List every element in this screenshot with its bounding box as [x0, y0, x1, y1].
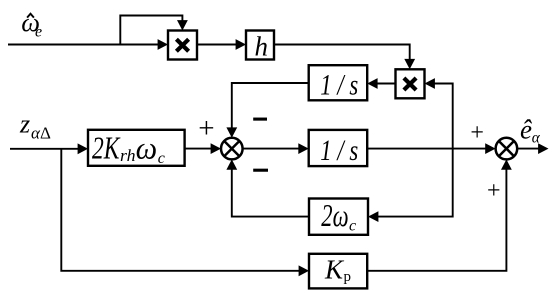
- svg-text:1 / s: 1 / s: [320, 70, 358, 102]
- gain block 2wc: [309, 198, 368, 235]
- label e-hat_alpha (output signal name): [520, 115, 540, 147]
- wire: 1/s (top) output down into summing junction S1 top: [226, 83, 308, 138]
- gain block Kp: [309, 254, 367, 289]
- summing junction S1 (circle with X): [221, 138, 243, 160]
- svg-text:+: +: [470, 120, 484, 146]
- wire: Kp output up into output summing junction S2 bottom: [367, 159, 512, 270]
- svg-text:ê: ê: [520, 115, 532, 145]
- minus sign (top input of summing junction S1): [253, 118, 267, 121]
- svg-text:α: α: [532, 129, 541, 146]
- integrator block 1/s (top): [309, 65, 368, 101]
- svg-text:h: h: [255, 31, 269, 61]
- wire: z branch down into gain block Kp (node at x=61.3): [61, 149, 309, 276]
- svg-text:+: +: [487, 178, 501, 204]
- svg-text:c: c: [349, 217, 356, 234]
- output summing junction S2 (circle with X): [496, 138, 518, 160]
- wire: output arrow e-hat_alpha: [517, 143, 548, 154]
- svg-text:ω: ω: [136, 129, 158, 165]
- wire: 1/s (middle) output to output summing junction S2 (branch node at x=452.7): [367, 143, 495, 154]
- wire: feedback branch over multiplier X1 (node at x=120): [120, 16, 188, 45]
- svg-text:c: c: [158, 150, 165, 167]
- wire: summing junction S1 output into integrator 1/s (middle): [243, 143, 309, 154]
- multiplier X2 (square with bold x): [396, 69, 425, 98]
- label omega-hat_e (input signal name): [21, 7, 42, 41]
- label z_alphaDelta (input signal name): [19, 110, 51, 143]
- svg-text:+: +: [198, 113, 214, 145]
- plus sign (bottom input of output summing junction S2): [487, 178, 501, 204]
- svg-text:Δ: Δ: [40, 124, 51, 143]
- svg-text:2ω: 2ω: [321, 198, 348, 233]
- wire: 2Krh*wc output into summing junction S1: [185, 143, 221, 154]
- svg-text:2K: 2K: [92, 129, 121, 165]
- gain block 2Krh*wc: [88, 129, 185, 166]
- plus sign (left input of summing junction S1): [198, 113, 214, 145]
- svg-text:1 / s: 1 / s: [320, 135, 358, 167]
- svg-text:e: e: [35, 24, 42, 41]
- wire: 2wc output up into summing junction S1 bottom: [226, 159, 309, 216]
- svg-text:K: K: [324, 255, 345, 285]
- svg-text:p: p: [344, 269, 352, 285]
- wire: branch down into 2wc block input: [368, 149, 453, 222]
- wire: omega_e input line into multiplier X1: [8, 39, 168, 50]
- plus sign (left input of output summing junction S2): [470, 120, 484, 146]
- svg-text:rh: rh: [120, 146, 136, 165]
- wire: h output to multiplier X2 top: [274, 45, 415, 70]
- wire: X1 output to block h: [197, 39, 246, 50]
- integrator block 1/s (middle): [309, 130, 368, 167]
- wire: X2 output into integrator 1/s (top): [367, 78, 395, 89]
- wire: main-line branch up into X2 right input: [425, 78, 453, 149]
- block h (gain): [246, 31, 274, 62]
- minus sign (bottom input of summing junction S1): [253, 169, 268, 172]
- wire: z input into gain block 2Krh*wc: [10, 143, 88, 154]
- multiplier X1 (square with bold x): [168, 31, 197, 60]
- svg-text:z: z: [19, 110, 30, 139]
